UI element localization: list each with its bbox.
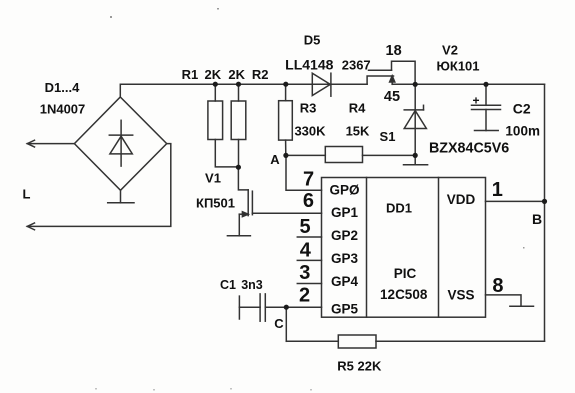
ground (VSS) [510, 305, 534, 307]
wire node A to pin 7 [286, 155, 322, 190]
svg-text:100m: 100m [505, 123, 540, 138]
wire node C to pin 2 [286, 306, 321, 308]
svg-text:C: C [274, 316, 284, 331]
wire rail right of transistor [392, 83, 544, 85]
pin 3 stub [297, 283, 321, 285]
svg-text:7: 7 [303, 168, 314, 190]
wire AC input lower with arrow [27, 144, 171, 227]
bridge inner diode cathode bar [109, 134, 132, 136]
svg-text:3: 3 [299, 262, 310, 284]
svg-text:V1: V1 [205, 171, 221, 186]
wire pin 8 VSS to ground [486, 295, 522, 306]
svg-text:1: 1 [492, 179, 503, 201]
svg-text:GP2: GP2 [331, 228, 358, 243]
ground (C2) [475, 130, 499, 132]
svg-text:КП501: КП501 [196, 196, 235, 211]
transistor V1 KP501 [238, 167, 248, 190]
svg-text:R5 22K: R5 22K [337, 358, 382, 373]
node A [283, 153, 288, 158]
svg-text:C2: C2 [513, 100, 531, 116]
svg-text:GP1: GP1 [331, 205, 359, 220]
svg-text:330K: 330K [294, 124, 326, 139]
ground (bridge bottom) [120, 190, 122, 203]
svg-text:D5: D5 [304, 33, 321, 48]
svg-text:PIC: PIC [394, 266, 417, 281]
node rail-R1 [213, 82, 218, 87]
resistor R5 [286, 340, 338, 342]
transistor V2 2367 (depletion FET) [367, 76, 393, 84]
node zener-R4 [413, 153, 418, 158]
svg-text:5: 5 [299, 216, 310, 238]
node rail-R3/D5 [283, 82, 288, 87]
pin numbers [299, 168, 503, 306]
IC DD1 PIC 12C508 outline [322, 178, 486, 318]
pin 5 stub [297, 236, 321, 238]
wire AC input upper with arrow [27, 143, 74, 145]
svg-text:1N4007: 1N4007 [40, 101, 86, 116]
svg-text:18: 18 [386, 43, 402, 59]
svg-text:4: 4 [300, 240, 312, 262]
svg-text:GP4: GP4 [331, 274, 359, 289]
svg-text:VSS: VSS [447, 288, 474, 303]
pin 4 stub [297, 259, 321, 261]
zener diode S1 BZX84C5V6 [414, 84, 416, 164]
svg-text:A: A [270, 152, 280, 167]
ground (zener) [404, 164, 428, 166]
svg-text:12C508: 12C508 [380, 287, 428, 302]
diode D5 LL4148 [312, 73, 330, 95]
svg-text:2K: 2K [204, 67, 221, 82]
svg-text:R2: R2 [252, 67, 269, 82]
svg-text:GP3: GP3 [331, 251, 359, 266]
svg-text:2: 2 [299, 285, 310, 307]
wire bridge top to rail [120, 84, 367, 97]
svg-text:V2: V2 [442, 43, 458, 58]
IC pin/name labels [329, 183, 475, 317]
ground (V1 source) [227, 235, 250, 237]
svg-text:LL4148: LL4148 [285, 56, 333, 72]
svg-text:R3: R3 [300, 101, 317, 116]
bridge rectifier D1...4 diamond [74, 97, 166, 190]
svg-text:C1: C1 [220, 278, 236, 292]
node C [284, 305, 289, 310]
svg-text:D1...4: D1...4 [45, 80, 80, 95]
svg-text:VDD: VDD [447, 192, 476, 207]
svg-text:R4: R4 [349, 101, 366, 116]
bridge inner diode lead [120, 120, 122, 166]
node rail-zener [413, 82, 418, 87]
svg-text:L: L [23, 187, 31, 202]
resistor R1 [214, 84, 216, 101]
wire pin 1 VDD to node B [486, 200, 545, 202]
svg-text:S1: S1 [380, 129, 396, 144]
scan specks [95, 8, 525, 391]
node rail-R2 [236, 82, 241, 87]
capacitor C2 [485, 84, 487, 105]
wire pin 6 to V1 drain [252, 212, 321, 214]
resistor R2 [238, 84, 240, 101]
svg-text:45: 45 [384, 89, 400, 105]
svg-text:ЮК101: ЮК101 [436, 59, 479, 74]
wire node C down [285, 307, 287, 341]
node B [542, 199, 547, 204]
svg-text:R1: R1 [182, 67, 199, 82]
svg-text:DD1: DD1 [386, 201, 412, 216]
svg-text:BZX84C5V6: BZX84C5V6 [429, 140, 509, 156]
svg-text:3n3: 3n3 [241, 278, 263, 292]
svg-text:GP5: GP5 [331, 302, 359, 317]
svg-text:+: + [472, 93, 479, 107]
node rail-C2 [483, 82, 488, 87]
svg-text:2K: 2K [228, 67, 245, 82]
resistor R4 [286, 154, 325, 156]
svg-text:2367: 2367 [342, 57, 371, 72]
resistor R3 [285, 84, 287, 101]
bridge inner diode triangle [110, 136, 132, 154]
svg-text:8: 8 [492, 275, 503, 297]
svg-text:B: B [532, 211, 542, 227]
svg-text:GPØ: GPØ [329, 183, 359, 198]
wire right rail down [544, 84, 546, 341]
svg-text:6: 6 [303, 190, 314, 212]
svg-text:15K: 15K [346, 124, 370, 139]
node R1-R2-gate [236, 165, 241, 170]
capacitor C1 3n3 [238, 296, 240, 319]
